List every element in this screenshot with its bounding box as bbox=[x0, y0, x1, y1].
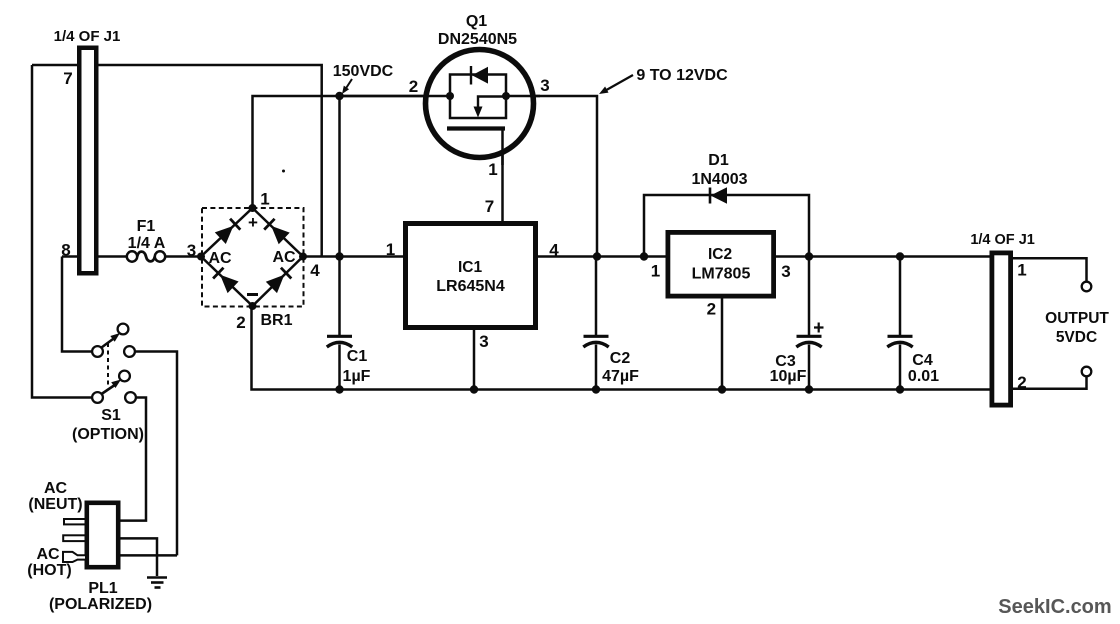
svg-text:9 TO 12VDC: 9 TO 12VDC bbox=[636, 67, 728, 84]
svg-text:AC: AC bbox=[272, 249, 296, 266]
svg-text:1: 1 bbox=[651, 262, 660, 281]
svg-text:8: 8 bbox=[61, 241, 70, 260]
svg-text:4: 4 bbox=[310, 261, 320, 280]
svg-text:OUTPUT: OUTPUT bbox=[1045, 310, 1109, 327]
svg-text:Q1: Q1 bbox=[466, 13, 487, 30]
svg-text:IC1: IC1 bbox=[458, 259, 483, 276]
svg-text:C2: C2 bbox=[610, 350, 631, 367]
svg-text:3: 3 bbox=[479, 332, 488, 351]
svg-text:D1: D1 bbox=[708, 152, 729, 169]
svg-text:BR1: BR1 bbox=[260, 312, 292, 329]
svg-text:10µF: 10µF bbox=[770, 368, 807, 385]
svg-text:(HOT): (HOT) bbox=[27, 562, 71, 579]
svg-text:+: + bbox=[248, 213, 258, 232]
svg-text:2: 2 bbox=[707, 300, 716, 319]
svg-text:7: 7 bbox=[485, 197, 494, 216]
svg-text:3: 3 bbox=[781, 262, 790, 281]
svg-text:2: 2 bbox=[236, 313, 245, 332]
svg-text:(NEUT): (NEUT) bbox=[28, 496, 82, 513]
svg-text:1: 1 bbox=[488, 160, 497, 179]
svg-text:C4: C4 bbox=[912, 352, 933, 369]
svg-text:AC: AC bbox=[44, 480, 68, 497]
svg-text:F1: F1 bbox=[137, 218, 156, 235]
svg-text:LR645N4: LR645N4 bbox=[436, 278, 505, 295]
svg-text:47µF: 47µF bbox=[602, 368, 639, 385]
svg-text:AC: AC bbox=[208, 250, 232, 267]
svg-text:5VDC: 5VDC bbox=[1056, 329, 1097, 346]
svg-text:C1: C1 bbox=[347, 348, 368, 365]
svg-text:1: 1 bbox=[260, 190, 269, 209]
svg-text:1: 1 bbox=[386, 240, 395, 259]
svg-text:S1: S1 bbox=[101, 407, 121, 424]
svg-text:3: 3 bbox=[187, 241, 196, 260]
svg-text:AC: AC bbox=[36, 546, 60, 563]
svg-text:4: 4 bbox=[549, 241, 559, 260]
svg-text:2: 2 bbox=[1017, 373, 1026, 392]
svg-text:2: 2 bbox=[409, 77, 418, 96]
svg-text:IC2: IC2 bbox=[708, 246, 732, 263]
svg-text:1/4 A: 1/4 A bbox=[128, 235, 166, 252]
svg-text:SeekIC.com: SeekIC.com bbox=[998, 596, 1111, 618]
svg-text:1/4 OF J1: 1/4 OF J1 bbox=[54, 28, 121, 45]
svg-text:1N4003: 1N4003 bbox=[691, 171, 747, 188]
svg-text:1: 1 bbox=[1017, 261, 1026, 280]
svg-text:1µF: 1µF bbox=[343, 368, 371, 385]
svg-text:7: 7 bbox=[63, 69, 72, 88]
svg-text:3: 3 bbox=[540, 76, 549, 95]
svg-text:0.01: 0.01 bbox=[908, 368, 939, 385]
svg-text:DN2540N5: DN2540N5 bbox=[438, 31, 517, 48]
svg-text:(OPTION): (OPTION) bbox=[72, 426, 144, 443]
svg-text:LM7805: LM7805 bbox=[692, 266, 751, 283]
svg-text:150VDC: 150VDC bbox=[333, 63, 394, 80]
svg-text:PL1: PL1 bbox=[88, 580, 117, 597]
svg-text:1/4 OF J1: 1/4 OF J1 bbox=[970, 232, 1034, 248]
svg-text:(POLARIZED): (POLARIZED) bbox=[49, 596, 152, 613]
